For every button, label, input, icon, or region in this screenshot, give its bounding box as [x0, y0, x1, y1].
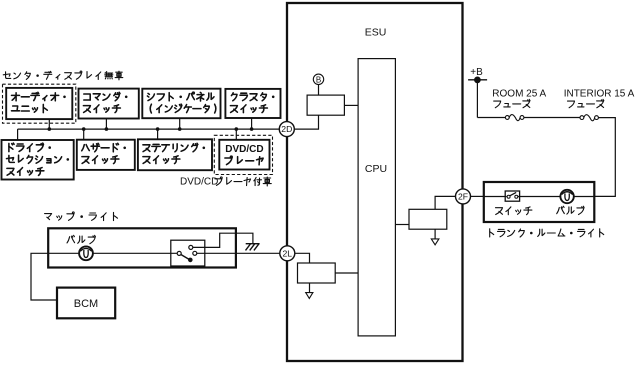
- wire interface box to CPU: [335, 272, 358, 274]
- label trunk room light: [489, 229, 491, 237]
- svg-text:2L: 2L: [283, 248, 293, 258]
- switch (map light): [171, 240, 205, 266]
- box hazard switch: [77, 140, 135, 170]
- box drive selection switch: [2, 140, 74, 180]
- wire bus to drive selection switch: [17, 129, 19, 140]
- wire fuse to trunk room light: [594, 118, 615, 197]
- wire B to interface box: [318, 85, 320, 96]
- interface box (2F): [409, 209, 447, 229]
- wire cluster switch to bus: [251, 118, 253, 129]
- svg-text:DVD/CD: DVD/CD: [225, 144, 263, 155]
- box steering switch: [138, 139, 212, 170]
- junction: [105, 127, 109, 131]
- wire interface box to CPU: [344, 104, 358, 106]
- junction: [250, 127, 254, 131]
- block ESU: [287, 3, 463, 361]
- wire 2L to interface box: [295, 253, 310, 263]
- wire commander switch to bus: [105, 119, 107, 130]
- node B: [313, 74, 323, 84]
- svg-text:CPU: CPU: [365, 163, 387, 175]
- dashed group audio unit: [3, 84, 76, 123]
- wire box to switch: [484, 196, 507, 198]
- junction: [235, 127, 239, 131]
- wire DVD/CD player to bus: [235, 129, 237, 140]
- ground arrow (2L interface): [306, 293, 313, 299]
- wire bulb to switch: [93, 252, 177, 254]
- svg-text:2D: 2D: [281, 124, 292, 134]
- box audio unit: [6, 88, 72, 119]
- switch (trunk): [505, 191, 519, 201]
- svg-text:DVD/CD: DVD/CD: [180, 176, 218, 187]
- wire interface box to ground arrow: [309, 283, 311, 293]
- ground arrow (2F interface): [431, 239, 439, 245]
- box DVD/CD player: [219, 140, 269, 170]
- wire bulb to BCM: [31, 253, 79, 300]
- svg-text:B: B: [316, 75, 321, 84]
- wire interface box to ground arrow: [434, 229, 436, 239]
- junction: [82, 127, 86, 131]
- label bulb (map light): [67, 237, 70, 243]
- wire bulb to box edge: [574, 196, 595, 198]
- svg-text:BCM: BCM: [74, 298, 98, 310]
- junction: [48, 127, 52, 131]
- wire interface box to connector 2D: [294, 115, 318, 129]
- interface box (B feed): [307, 95, 344, 115]
- box BCM: [57, 288, 115, 319]
- interface box (2L): [298, 263, 336, 283]
- wire 2F to interface box: [435, 196, 455, 209]
- box commander switch: [79, 89, 139, 119]
- bulb (map light): [79, 246, 93, 260]
- fuse INTERIOR 15 A: [580, 116, 584, 120]
- wire switch to ground: [193, 233, 253, 247]
- wire interface box to CPU: [395, 224, 409, 226]
- box shift panel (indicator): [142, 89, 220, 119]
- wire switch to bulb: [518, 196, 560, 198]
- connector 2D: [279, 122, 294, 137]
- junction: [178, 127, 182, 131]
- wire steering switch to bus: [157, 129, 159, 139]
- wire audio unit to bus: [48, 119, 50, 129]
- fuse ROOM 25 A: [505, 116, 509, 120]
- label center display not equipped: [3, 74, 10, 76]
- svg-text:ROOM 25 A: ROOM 25 A: [492, 88, 546, 99]
- box cluster switch: [225, 89, 280, 118]
- connector 2L: [280, 246, 295, 261]
- wire hazard switch to bus: [83, 129, 85, 140]
- svg-text:2F: 2F: [458, 191, 468, 201]
- dashed group DVD/CD player: [214, 135, 272, 174]
- wire between fuses: [524, 117, 580, 119]
- wire switch to connector 2L: [197, 252, 280, 254]
- svg-text:ESU: ESU: [365, 27, 387, 39]
- wire to ROOM fuse: [477, 117, 505, 119]
- junction: [156, 127, 160, 131]
- wire +B to fuse line: [476, 80, 478, 118]
- box trunk room light: [484, 182, 595, 222]
- svg-text:+B: +B: [470, 67, 483, 78]
- bulb (trunk): [560, 190, 573, 203]
- label bulb (trunk): [557, 208, 560, 214]
- wire shift panel to bus: [179, 118, 181, 129]
- box map light: [48, 228, 236, 267]
- block CPU: [358, 59, 395, 336]
- svg-text:INTERIOR 15 A: INTERIOR 15 A: [564, 88, 635, 99]
- ground (map light switch): [246, 243, 260, 245]
- wire 2F to trunk room light: [471, 195, 484, 197]
- label map light: [45, 214, 52, 218]
- connector 2F: [456, 189, 471, 204]
- label switch (trunk): [496, 208, 503, 215]
- bus wire to 2D: [18, 128, 280, 130]
